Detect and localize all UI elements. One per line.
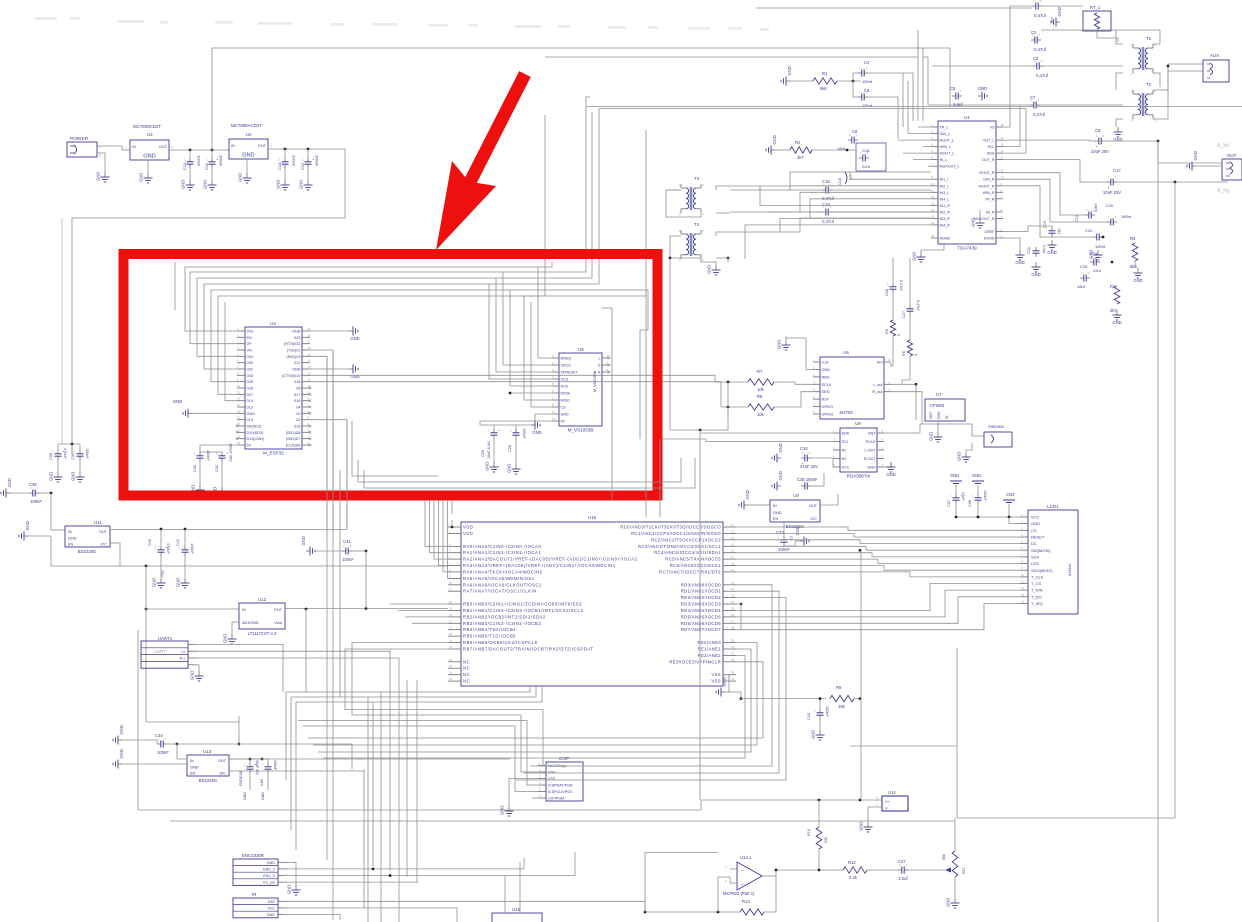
svg-text:13: 13 bbox=[1001, 156, 1005, 160]
svg-text:WOSI: WOSI bbox=[561, 392, 571, 396]
svg-text:C12: C12 bbox=[300, 162, 305, 170]
svg-text:ILI9341: ILI9341 bbox=[1068, 563, 1072, 576]
svg-text:GND: GND bbox=[238, 173, 243, 182]
svg-text:GND: GND bbox=[937, 411, 941, 419]
svg-text:2,2uf: 2,2uf bbox=[898, 876, 908, 881]
svg-text:GND: GND bbox=[267, 861, 276, 865]
svg-text:(CTS0)019: (CTS0)019 bbox=[282, 374, 301, 378]
svg-text:47uF: 47uF bbox=[961, 492, 965, 501]
svg-text:12: 12 bbox=[731, 523, 735, 527]
svg-text:17: 17 bbox=[308, 340, 312, 344]
svg-text:(RxD)03: (RxD)03 bbox=[286, 355, 300, 359]
svg-text:021: 021 bbox=[294, 361, 300, 365]
svg-text:100nf: 100nf bbox=[862, 79, 873, 84]
svg-text:5k6: 5k6 bbox=[1130, 264, 1137, 269]
svg-text:C29: C29 bbox=[481, 450, 485, 457]
svg-text:U1: U1 bbox=[964, 115, 970, 120]
svg-text:026: 026 bbox=[247, 387, 253, 391]
svg-text:ICSPDAT/PGD: ICSPDAT/PGD bbox=[548, 784, 573, 788]
svg-text:POWER: POWER bbox=[70, 136, 89, 142]
svg-text:25: 25 bbox=[449, 677, 453, 681]
svg-text:CFW63: CFW63 bbox=[930, 403, 945, 408]
svg-text:04: 04 bbox=[296, 406, 300, 410]
svg-text:A_lef: A_lef bbox=[1217, 143, 1229, 149]
svg-text:R9: R9 bbox=[836, 685, 842, 690]
svg-text:22nf: 22nf bbox=[862, 164, 871, 169]
svg-text:16: 16 bbox=[1001, 136, 1005, 140]
svg-text:T_DIN: T_DIN bbox=[1031, 588, 1043, 593]
svg-text:IN_R: IN_R bbox=[986, 210, 995, 214]
svg-text:SDA: SDA bbox=[987, 152, 995, 156]
svg-text:GND: GND bbox=[299, 180, 304, 189]
svg-text:OUT_L: OUT_L bbox=[983, 139, 995, 143]
svg-text:IN: IN bbox=[945, 415, 949, 419]
svg-text:VS: VS bbox=[990, 126, 995, 130]
svg-text:R6: R6 bbox=[902, 351, 906, 356]
svg-text:GND: GND bbox=[822, 368, 831, 372]
svg-text:SCL: SCL bbox=[987, 145, 994, 149]
svg-text:0,47uf: 0,47uf bbox=[1036, 73, 1048, 78]
svg-text:R13: R13 bbox=[742, 899, 750, 904]
svg-text:+: + bbox=[312, 158, 314, 162]
svg-text:U5: U5 bbox=[578, 347, 584, 352]
svg-text:12: 12 bbox=[1021, 586, 1025, 590]
svg-text:GND/C45: GND/C45 bbox=[239, 771, 243, 786]
svg-text:VCC: VCC bbox=[267, 907, 275, 911]
svg-text:GND: GND bbox=[190, 671, 195, 680]
svg-text:RC6/ANC6/IOCC6/CK1: RC6/ANC6/IOCC6/CK1 bbox=[670, 563, 721, 568]
svg-text:U1A.1: U1A.1 bbox=[740, 855, 752, 860]
svg-text:0,47uf: 0,47uf bbox=[916, 300, 920, 312]
svg-text:100nF: 100nF bbox=[825, 706, 829, 717]
svg-text:L_out: L_out bbox=[873, 383, 883, 387]
svg-text:50k: 50k bbox=[942, 854, 946, 860]
svg-text:GND: GND bbox=[292, 330, 301, 334]
svg-text:21: 21 bbox=[731, 581, 735, 585]
svg-text:0,47uf: 0,47uf bbox=[899, 280, 903, 292]
svg-text:19: 19 bbox=[308, 327, 312, 331]
svg-text:DREQ: DREQ bbox=[561, 357, 572, 361]
svg-text:GND: GND bbox=[1015, 260, 1024, 265]
svg-text:/CC: /CC bbox=[100, 543, 107, 547]
svg-text:RESET: RESET bbox=[1031, 535, 1045, 540]
svg-text:11: 11 bbox=[1021, 580, 1024, 584]
svg-text:5,6nf: 5,6nf bbox=[1094, 203, 1098, 212]
svg-text:14: 14 bbox=[1021, 600, 1025, 604]
svg-text:VDD: VDD bbox=[548, 771, 556, 775]
svg-text:RC3/ANC3/T2IN0/IOCC3/SCK1/SCL1: RC3/ANC3/T2IN0/IOCC3/SCK1/SCL1 bbox=[638, 544, 721, 549]
svg-text:GND: GND bbox=[507, 464, 512, 473]
svg-text:18nf: 18nf bbox=[837, 146, 846, 151]
svg-text:SDI(MOSI): SDI(MOSI) bbox=[1031, 548, 1051, 553]
svg-text:T2: T2 bbox=[1146, 82, 1152, 87]
svg-text:16: 16 bbox=[308, 346, 312, 350]
svg-text:T_IRQ: T_IRQ bbox=[1031, 601, 1043, 606]
svg-text:+: + bbox=[216, 158, 218, 162]
svg-text:13: 13 bbox=[449, 600, 453, 604]
svg-text:05: 05 bbox=[296, 387, 300, 391]
svg-text:GND: GND bbox=[287, 885, 292, 894]
svg-text:U14: U14 bbox=[888, 790, 896, 795]
svg-text:SCL: SCL bbox=[842, 440, 849, 444]
svg-text:U8: U8 bbox=[855, 421, 861, 426]
svg-text:U6: U6 bbox=[843, 350, 849, 355]
svg-text:U9: U9 bbox=[793, 493, 799, 498]
svg-text:GND: GND bbox=[1193, 151, 1198, 160]
svg-text:GND: GND bbox=[68, 537, 77, 541]
svg-text:+: + bbox=[741, 882, 744, 887]
svg-text:IN: IN bbox=[231, 144, 235, 148]
svg-text:DAT: DAT bbox=[268, 900, 276, 904]
svg-text:10uF 25V: 10uF 25V bbox=[255, 760, 259, 776]
svg-text:15: 15 bbox=[449, 613, 453, 617]
svg-text:VN: VN bbox=[247, 349, 253, 353]
svg-text:G: G bbox=[598, 364, 601, 368]
svg-text:ENC_2: ENC_2 bbox=[263, 868, 275, 872]
svg-text:M_ESP32: M_ESP32 bbox=[263, 451, 284, 456]
svg-text:33: 33 bbox=[731, 658, 735, 662]
svg-text:0,47uf: 0,47uf bbox=[822, 219, 834, 224]
svg-text:100nF: 100nF bbox=[85, 448, 89, 459]
svg-text:IN: IN bbox=[190, 759, 194, 763]
svg-text:11: 11 bbox=[237, 390, 240, 394]
svg-text:Vout: Vout bbox=[274, 621, 283, 625]
svg-text:TDA7439: TDA7439 bbox=[957, 246, 977, 251]
svg-text:14: 14 bbox=[449, 607, 453, 611]
svg-text:10uF 6.3V: 10uF 6.3V bbox=[487, 441, 491, 459]
svg-text:RB1/ANB1/C1IN3-/C3IN3-/IOCB1/I: RB1/ANB1/C1IN3-/C3IN3-/IOCB1/INT1/SCK2/S… bbox=[463, 608, 584, 613]
svg-text:(SD1)D8: (SD1)D8 bbox=[286, 431, 301, 435]
svg-text:RD0/AND0/IOCD0: RD0/AND0/IOCD0 bbox=[681, 582, 722, 587]
svg-text:U12: U12 bbox=[258, 597, 267, 602]
svg-text:02: 02 bbox=[296, 418, 300, 422]
svg-text:GND: GND bbox=[777, 340, 782, 349]
svg-text:C3: C3 bbox=[1033, 56, 1039, 61]
svg-text:027: 027 bbox=[247, 393, 253, 397]
svg-text:100nF: 100nF bbox=[197, 155, 202, 167]
svg-text:18: 18 bbox=[1001, 123, 1005, 127]
svg-text:UART: UART bbox=[154, 649, 166, 654]
svg-text:MCP602 (Part 1): MCP602 (Part 1) bbox=[723, 891, 755, 896]
svg-text:13: 13 bbox=[1021, 593, 1025, 597]
svg-text:OUT: OUT bbox=[274, 608, 283, 612]
svg-text:WIN_L: WIN_L bbox=[940, 145, 951, 149]
svg-text:R2: R2 bbox=[795, 140, 801, 145]
svg-text:18: 18 bbox=[731, 562, 735, 566]
svg-text:GND: GND bbox=[247, 412, 256, 416]
svg-text:032: 032 bbox=[247, 368, 253, 372]
svg-text:SEN: SEN bbox=[822, 390, 830, 394]
svg-text:32: 32 bbox=[731, 651, 735, 655]
svg-text:14: 14 bbox=[931, 208, 935, 212]
svg-text:100nf: 100nf bbox=[862, 103, 873, 108]
svg-text:C22: C22 bbox=[1085, 228, 1093, 233]
svg-text:470uF: 470uF bbox=[166, 543, 170, 554]
svg-text:C11: C11 bbox=[204, 162, 209, 170]
svg-text:0,47uf: 0,47uf bbox=[1034, 13, 1046, 18]
svg-text:015: 015 bbox=[294, 425, 300, 429]
svg-text:18: 18 bbox=[449, 632, 453, 636]
svg-text:−: − bbox=[741, 868, 744, 873]
svg-text:0,47uf: 0,47uf bbox=[1034, 47, 1046, 52]
svg-text:GND: GND bbox=[978, 86, 987, 91]
svg-text:IN1_R: IN1_R bbox=[940, 204, 951, 208]
svg-text:OUT: OUT bbox=[218, 759, 227, 763]
svg-text:NC: NC bbox=[463, 659, 470, 664]
svg-text:GND: GND bbox=[152, 578, 157, 587]
svg-text:20: 20 bbox=[449, 645, 453, 649]
svg-text:13: 13 bbox=[308, 365, 312, 369]
svg-text:BD2226G: BD2226G bbox=[199, 778, 217, 783]
svg-text:T1: T1 bbox=[1146, 36, 1152, 41]
svg-text:GIN_R: GIN_R bbox=[983, 178, 995, 182]
svg-text:R1: R1 bbox=[822, 71, 828, 76]
svg-text:10: 10 bbox=[449, 581, 453, 585]
svg-text:GND: GND bbox=[929, 432, 934, 441]
svg-text:MUXOUT_L: MUXOUT_L bbox=[940, 165, 960, 169]
svg-text:t x: t x bbox=[181, 650, 185, 654]
svg-text:(RTS)022: (RTS)022 bbox=[284, 342, 300, 346]
svg-text:MC7809CD2T: MC7809CD2T bbox=[133, 124, 161, 129]
svg-text:100nF: 100nF bbox=[292, 155, 297, 167]
svg-text:OUT: OUT bbox=[99, 530, 108, 534]
svg-text:U7: U7 bbox=[936, 392, 942, 397]
svg-text:GND: GND bbox=[772, 135, 777, 144]
svg-text:033: 033 bbox=[247, 374, 253, 378]
svg-text:MISO: MISO bbox=[561, 399, 571, 403]
svg-text:26: 26 bbox=[731, 613, 735, 617]
svg-text:18: 18 bbox=[931, 234, 935, 238]
svg-text:RB5/ANB5/T1G/IOCB5: RB5/ANB5/T1G/IOCB5 bbox=[463, 634, 516, 639]
svg-text:R7: R7 bbox=[757, 369, 763, 374]
svg-text:CN3: CN3 bbox=[1006, 492, 1015, 497]
svg-text:15: 15 bbox=[308, 352, 312, 356]
svg-text:0: 0 bbox=[914, 354, 918, 356]
svg-text:R10: R10 bbox=[807, 829, 811, 836]
svg-text:15: 15 bbox=[237, 416, 241, 420]
svg-text:C10: C10 bbox=[838, 178, 842, 185]
svg-text:19: 19 bbox=[731, 568, 735, 572]
svg-text:23: 23 bbox=[731, 594, 735, 598]
svg-text:ICSPCLK/PGC: ICSPCLK/PGC bbox=[548, 790, 573, 794]
svg-text:013: 013 bbox=[247, 418, 253, 422]
svg-text:EN: EN bbox=[773, 517, 779, 521]
svg-text:LVP/PGM: LVP/PGM bbox=[548, 797, 564, 801]
svg-text:RC1/ANC1/CCP2/IOCC1/SOSCIN/SOS: RC1/ANC1/CCP2/IOCC1/SOSCIN/SOSO bbox=[631, 531, 721, 536]
svg-text:/CC: /CC bbox=[810, 517, 817, 521]
svg-text:GND: GND bbox=[722, 677, 727, 686]
svg-text:(SD0)D7: (SD0)D7 bbox=[286, 437, 301, 441]
svg-text:012: 012 bbox=[247, 406, 253, 410]
svg-text:GND: GND bbox=[1057, 7, 1062, 16]
svg-text:D11(CMD): D11(CMD) bbox=[247, 437, 266, 441]
svg-text:T_CS: T_CS bbox=[1031, 581, 1042, 586]
svg-text:24: 24 bbox=[449, 671, 453, 675]
svg-text:27: 27 bbox=[731, 619, 735, 623]
svg-text:GND: GND bbox=[971, 218, 976, 227]
svg-text:LCD1: LCD1 bbox=[1047, 504, 1059, 509]
svg-text:NC: NC bbox=[463, 666, 470, 671]
svg-text:15: 15 bbox=[931, 214, 935, 218]
svg-text:EN: EN bbox=[68, 543, 74, 547]
svg-text:10: 10 bbox=[237, 384, 241, 388]
svg-text:C14: C14 bbox=[277, 162, 282, 170]
svg-text:R_out: R_out bbox=[872, 390, 883, 394]
svg-text:NC: NC bbox=[463, 679, 470, 684]
svg-text:XCS: XCS bbox=[561, 378, 569, 382]
svg-text:18nf: 18nf bbox=[1077, 284, 1086, 289]
svg-text:Ant: Ant bbox=[877, 361, 884, 365]
svg-text:C46/: C46/ bbox=[260, 779, 264, 786]
svg-text:GND: GND bbox=[787, 66, 792, 75]
svg-text:GND: GND bbox=[7, 478, 12, 487]
svg-text:SI4703: SI4703 bbox=[839, 410, 853, 415]
svg-text:GND: GND bbox=[867, 466, 876, 470]
svg-text:C7: C7 bbox=[1030, 95, 1036, 100]
svg-text:RA7/ANA7/IOCA7/OSC1/CLKIN: RA7/ANA7/IOCA7/OSC1/CLKIN bbox=[463, 589, 537, 594]
svg-text:C20: C20 bbox=[1106, 203, 1114, 208]
svg-text:IN: IN bbox=[242, 608, 246, 612]
svg-text:12: 12 bbox=[931, 195, 935, 199]
svg-text:GND: GND bbox=[1089, 250, 1094, 259]
svg-text:18: 18 bbox=[308, 333, 312, 337]
svg-text:C33: C33 bbox=[193, 465, 197, 472]
svg-text:GND: GND bbox=[261, 792, 265, 800]
svg-text:GND: GND bbox=[223, 634, 228, 643]
svg-text:NC: NC bbox=[463, 672, 470, 677]
svg-text:T4: T4 bbox=[694, 222, 700, 227]
svg-text:R8: R8 bbox=[757, 394, 763, 399]
svg-text:GND: GND bbox=[71, 472, 76, 481]
svg-text:IN3_L: IN3_L bbox=[940, 191, 950, 195]
svg-text:RC7/ANC7/IOCC7/RX1/DT1: RC7/ANC7/IOCC7/RX1/DT1 bbox=[659, 569, 721, 574]
svg-text:035: 035 bbox=[247, 361, 253, 365]
svg-text:U4: U4 bbox=[270, 321, 276, 326]
svg-text:2k7: 2k7 bbox=[797, 155, 804, 160]
svg-text:25: 25 bbox=[731, 607, 735, 611]
svg-text:GND: GND bbox=[292, 368, 301, 372]
svg-text:R3: R3 bbox=[1130, 236, 1136, 241]
svg-text:13: 13 bbox=[931, 201, 935, 205]
svg-text:023: 023 bbox=[294, 336, 300, 340]
svg-text:016: 016 bbox=[294, 399, 300, 403]
svg-text:OUT: OUT bbox=[258, 144, 267, 148]
svg-text:30: 30 bbox=[731, 639, 735, 643]
svg-text:VP: VP bbox=[247, 342, 253, 346]
svg-text:GND: GND bbox=[972, 473, 981, 478]
svg-text:U11: U11 bbox=[94, 520, 102, 525]
svg-text:47uF 25V: 47uF 25V bbox=[800, 464, 818, 469]
svg-text:ICSP: ICSP bbox=[559, 756, 570, 761]
svg-text:LT1117CST-3.3: LT1117CST-3.3 bbox=[248, 631, 277, 636]
svg-text:182: 182 bbox=[1057, 228, 1061, 234]
svg-text:RD6/AND6/IOCD6: RD6/AND6/IOCD6 bbox=[681, 621, 722, 626]
svg-text:OUT: OUT bbox=[809, 504, 818, 508]
svg-text:OUT: OUT bbox=[929, 412, 933, 419]
svg-text:10uF 25V: 10uF 25V bbox=[1091, 149, 1109, 154]
svg-text:100nF: 100nF bbox=[206, 450, 210, 461]
svg-text:GIN_L: GIN_L bbox=[940, 132, 951, 136]
svg-text:GND: GND bbox=[1047, 250, 1056, 255]
svg-text:5V: 5V bbox=[247, 444, 252, 448]
svg-text:IN: IN bbox=[132, 145, 136, 149]
svg-text:14: 14 bbox=[1001, 149, 1005, 153]
svg-text:GND: GND bbox=[276, 180, 281, 189]
svg-text:C25: C25 bbox=[1080, 264, 1088, 269]
svg-text:RDA5807m: RDA5807m bbox=[847, 474, 871, 479]
svg-text:RD5/AND5/IOCD5: RD5/AND5/IOCD5 bbox=[681, 614, 722, 619]
svg-text:C28: C28 bbox=[508, 445, 512, 452]
svg-text:ENC_1: ENC_1 bbox=[263, 874, 275, 878]
svg-text:GND: GND bbox=[242, 153, 254, 159]
svg-text:RB6/ANB6/OCB6/CK2/ICSPCLK: RB6/ANB6/OCB6/CK2/ICSPCLK bbox=[463, 640, 538, 645]
svg-text:GND: GND bbox=[957, 452, 962, 461]
svg-text:00: 00 bbox=[296, 412, 300, 416]
svg-text:11: 11 bbox=[931, 188, 934, 192]
svg-text:ADJ/GND: ADJ/GND bbox=[242, 621, 259, 625]
svg-text:RD7/AND7/IOCD7: RD7/AND7/IOCD7 bbox=[681, 627, 722, 632]
svg-text:2,2uf: 2,2uf bbox=[1042, 245, 1046, 254]
svg-text:100nF: 100nF bbox=[778, 547, 790, 552]
svg-text:R5: R5 bbox=[885, 329, 889, 334]
svg-text:GND: GND bbox=[778, 471, 783, 480]
svg-text:C19: C19 bbox=[1075, 215, 1079, 222]
svg-text:100nf: 100nf bbox=[1095, 244, 1106, 249]
svg-text:NC: NC bbox=[842, 449, 848, 453]
svg-text:GND: GND bbox=[119, 749, 124, 758]
svg-text:5V: 5V bbox=[561, 420, 566, 424]
svg-text:GND: GND bbox=[561, 413, 570, 417]
svg-text:GND: GND bbox=[886, 472, 895, 477]
svg-text:WIN_R: WIN_R bbox=[983, 191, 995, 195]
svg-text:11: 11 bbox=[449, 587, 452, 591]
svg-text:GND: GND bbox=[1031, 521, 1040, 526]
svg-text:10k: 10k bbox=[838, 704, 846, 709]
svg-text:GND: GND bbox=[773, 511, 782, 515]
svg-text:GND: GND bbox=[190, 766, 199, 770]
svg-text:10: 10 bbox=[1021, 573, 1025, 577]
svg-text:U13: U13 bbox=[203, 749, 212, 754]
svg-text:RE3/IOCE3/VPP/MCLR: RE3/IOCE3/VPP/MCLR bbox=[669, 659, 721, 664]
svg-text:018: 018 bbox=[294, 380, 300, 384]
svg-text:3V3: 3V3 bbox=[247, 330, 254, 334]
svg-text:CS: CS bbox=[1031, 528, 1037, 533]
svg-text:0: 0 bbox=[897, 334, 901, 336]
svg-text:ENCODER: ENCODER bbox=[242, 853, 264, 858]
svg-text:DGND: DGND bbox=[984, 237, 995, 241]
svg-text:R12: R12 bbox=[848, 860, 856, 865]
svg-text:36: 36 bbox=[731, 677, 735, 681]
svg-text:IN_L: IN_L bbox=[940, 158, 948, 162]
svg-text:GND: GND bbox=[143, 154, 155, 160]
svg-text:R-OUT: R-OUT bbox=[864, 457, 876, 461]
svg-text:U16: U16 bbox=[588, 515, 597, 520]
svg-text:IN2_L: IN2_L bbox=[940, 184, 950, 188]
svg-text:+: + bbox=[1108, 186, 1110, 190]
svg-text:12: 12 bbox=[237, 397, 241, 401]
svg-text:SDA: SDA bbox=[842, 432, 850, 436]
svg-text:T3: T3 bbox=[694, 176, 700, 181]
svg-text:100nF: 100nF bbox=[157, 750, 169, 755]
svg-text:C30: C30 bbox=[49, 453, 53, 460]
svg-text:2.2k: 2.2k bbox=[849, 875, 858, 880]
svg-text:16: 16 bbox=[449, 619, 453, 623]
svg-text:16: 16 bbox=[731, 549, 735, 553]
svg-text:(TxD)01: (TxD)01 bbox=[287, 349, 301, 353]
svg-text:+: + bbox=[1096, 145, 1098, 149]
svg-text:10uF 25V: 10uF 25V bbox=[1103, 190, 1121, 195]
svg-text:C38: C38 bbox=[968, 500, 972, 507]
